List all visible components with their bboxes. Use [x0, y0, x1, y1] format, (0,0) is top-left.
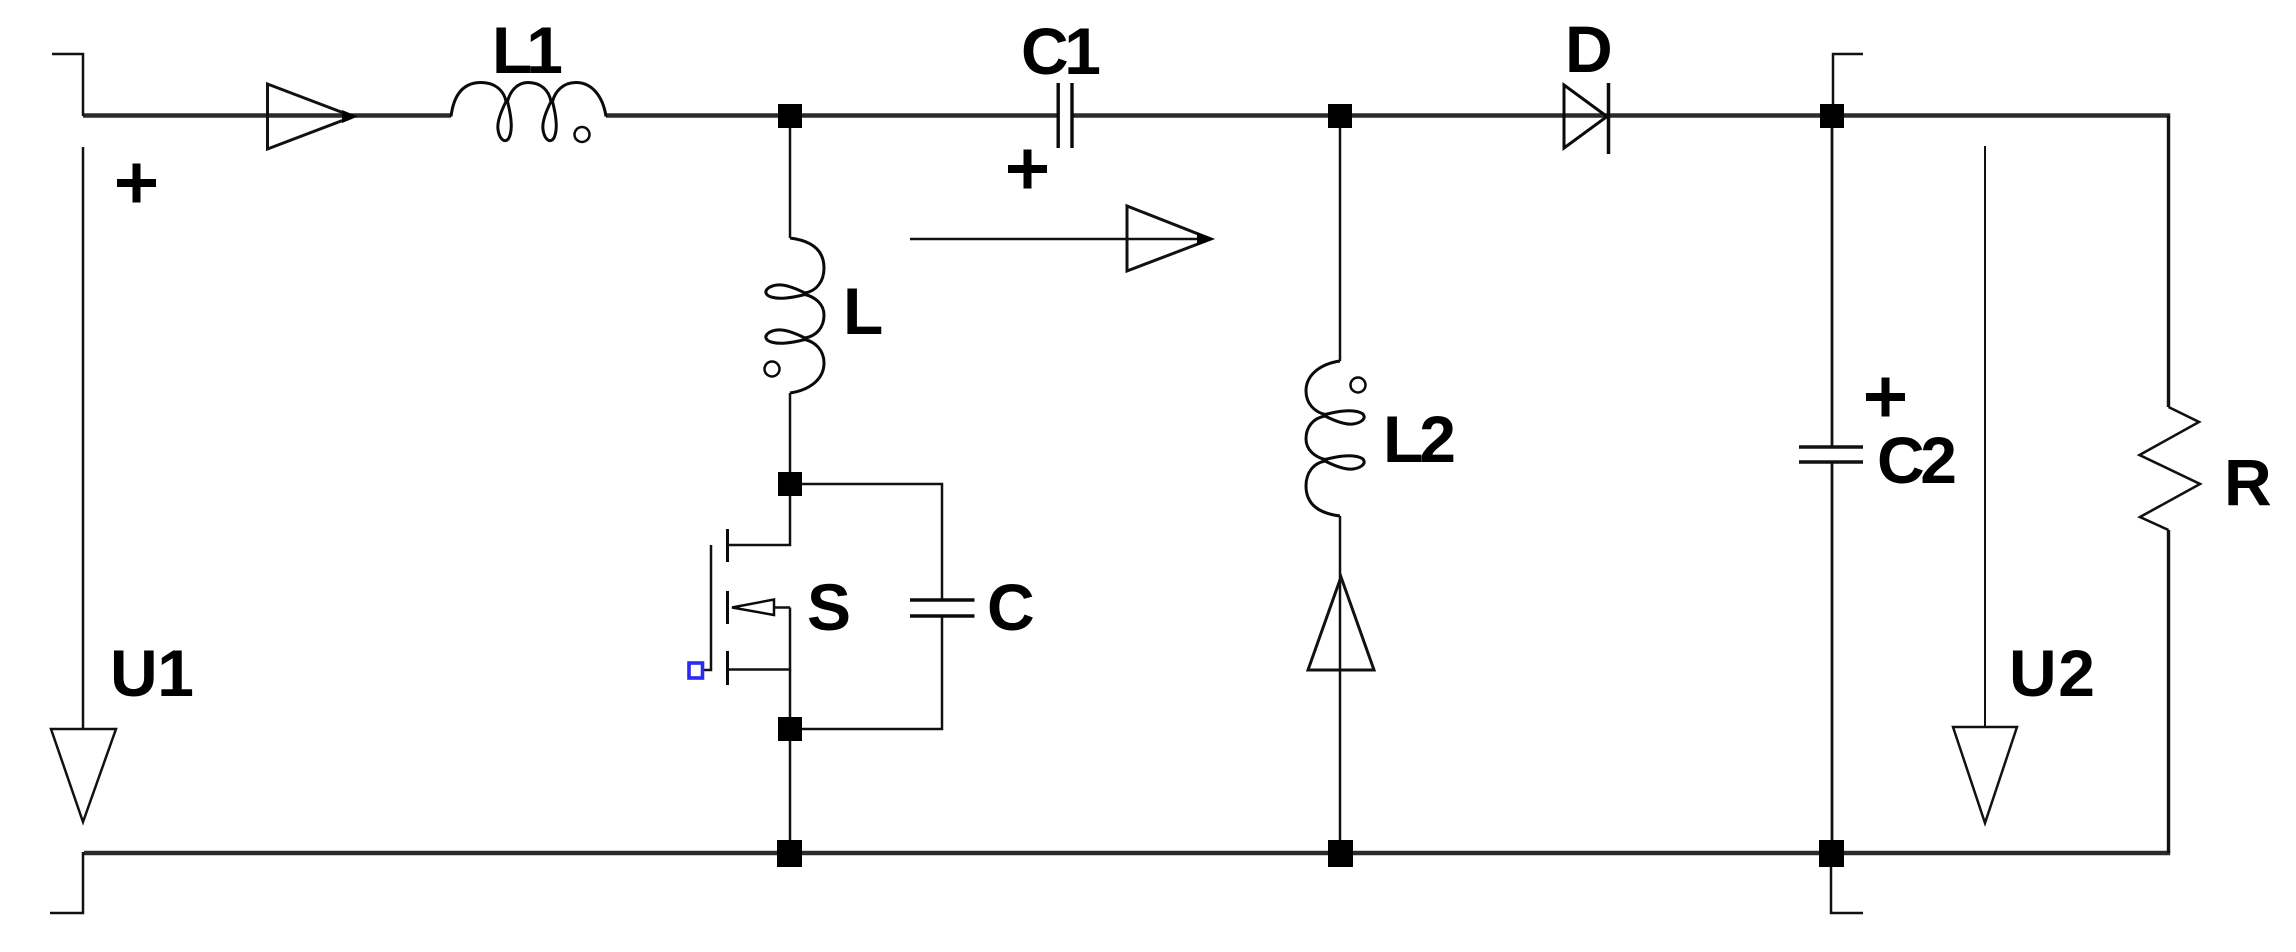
svg-text:L: L — [843, 274, 883, 348]
svg-text:L2: L2 — [1383, 402, 1456, 476]
svg-text:D: D — [1565, 12, 1613, 86]
svg-text:L1: L1 — [492, 13, 563, 87]
svg-text:C1: C1 — [1021, 14, 1101, 88]
svg-text:S: S — [807, 570, 851, 644]
svg-text:C: C — [987, 570, 1035, 644]
svg-text:C2: C2 — [1877, 423, 1957, 497]
svg-text:U1: U1 — [110, 636, 194, 710]
svg-text:R: R — [2224, 445, 2272, 519]
svg-text:U2: U2 — [2009, 636, 2095, 710]
